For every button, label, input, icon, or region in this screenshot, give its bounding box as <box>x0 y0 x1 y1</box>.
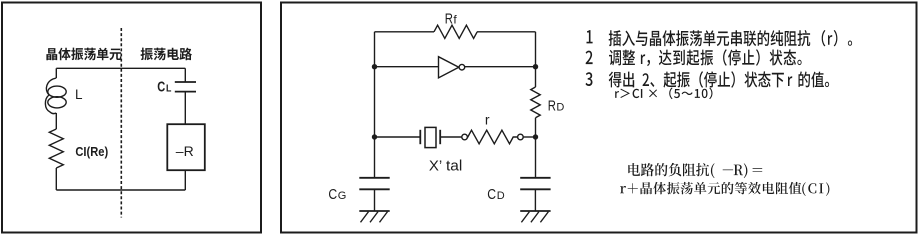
svg-text:C: C <box>157 80 165 96</box>
svg-text:f: f <box>453 13 457 27</box>
svg-text:r: r <box>485 112 490 128</box>
svg-text:D: D <box>556 102 564 114</box>
svg-text:R: R <box>445 12 453 28</box>
svg-text:C: C <box>328 187 337 203</box>
svg-text:C: C <box>487 187 496 203</box>
svg-text:D: D <box>497 190 505 202</box>
svg-text:R: R <box>548 99 556 115</box>
svg-text:–R: –R <box>176 143 194 159</box>
svg-text:G: G <box>338 190 347 202</box>
svg-text:L: L <box>75 87 83 102</box>
svg-text:CI(Re): CI(Re) <box>75 144 108 159</box>
svg-text:tal: tal <box>446 157 462 174</box>
svg-text:L: L <box>166 83 172 95</box>
svg-text:X’: X’ <box>429 157 442 174</box>
